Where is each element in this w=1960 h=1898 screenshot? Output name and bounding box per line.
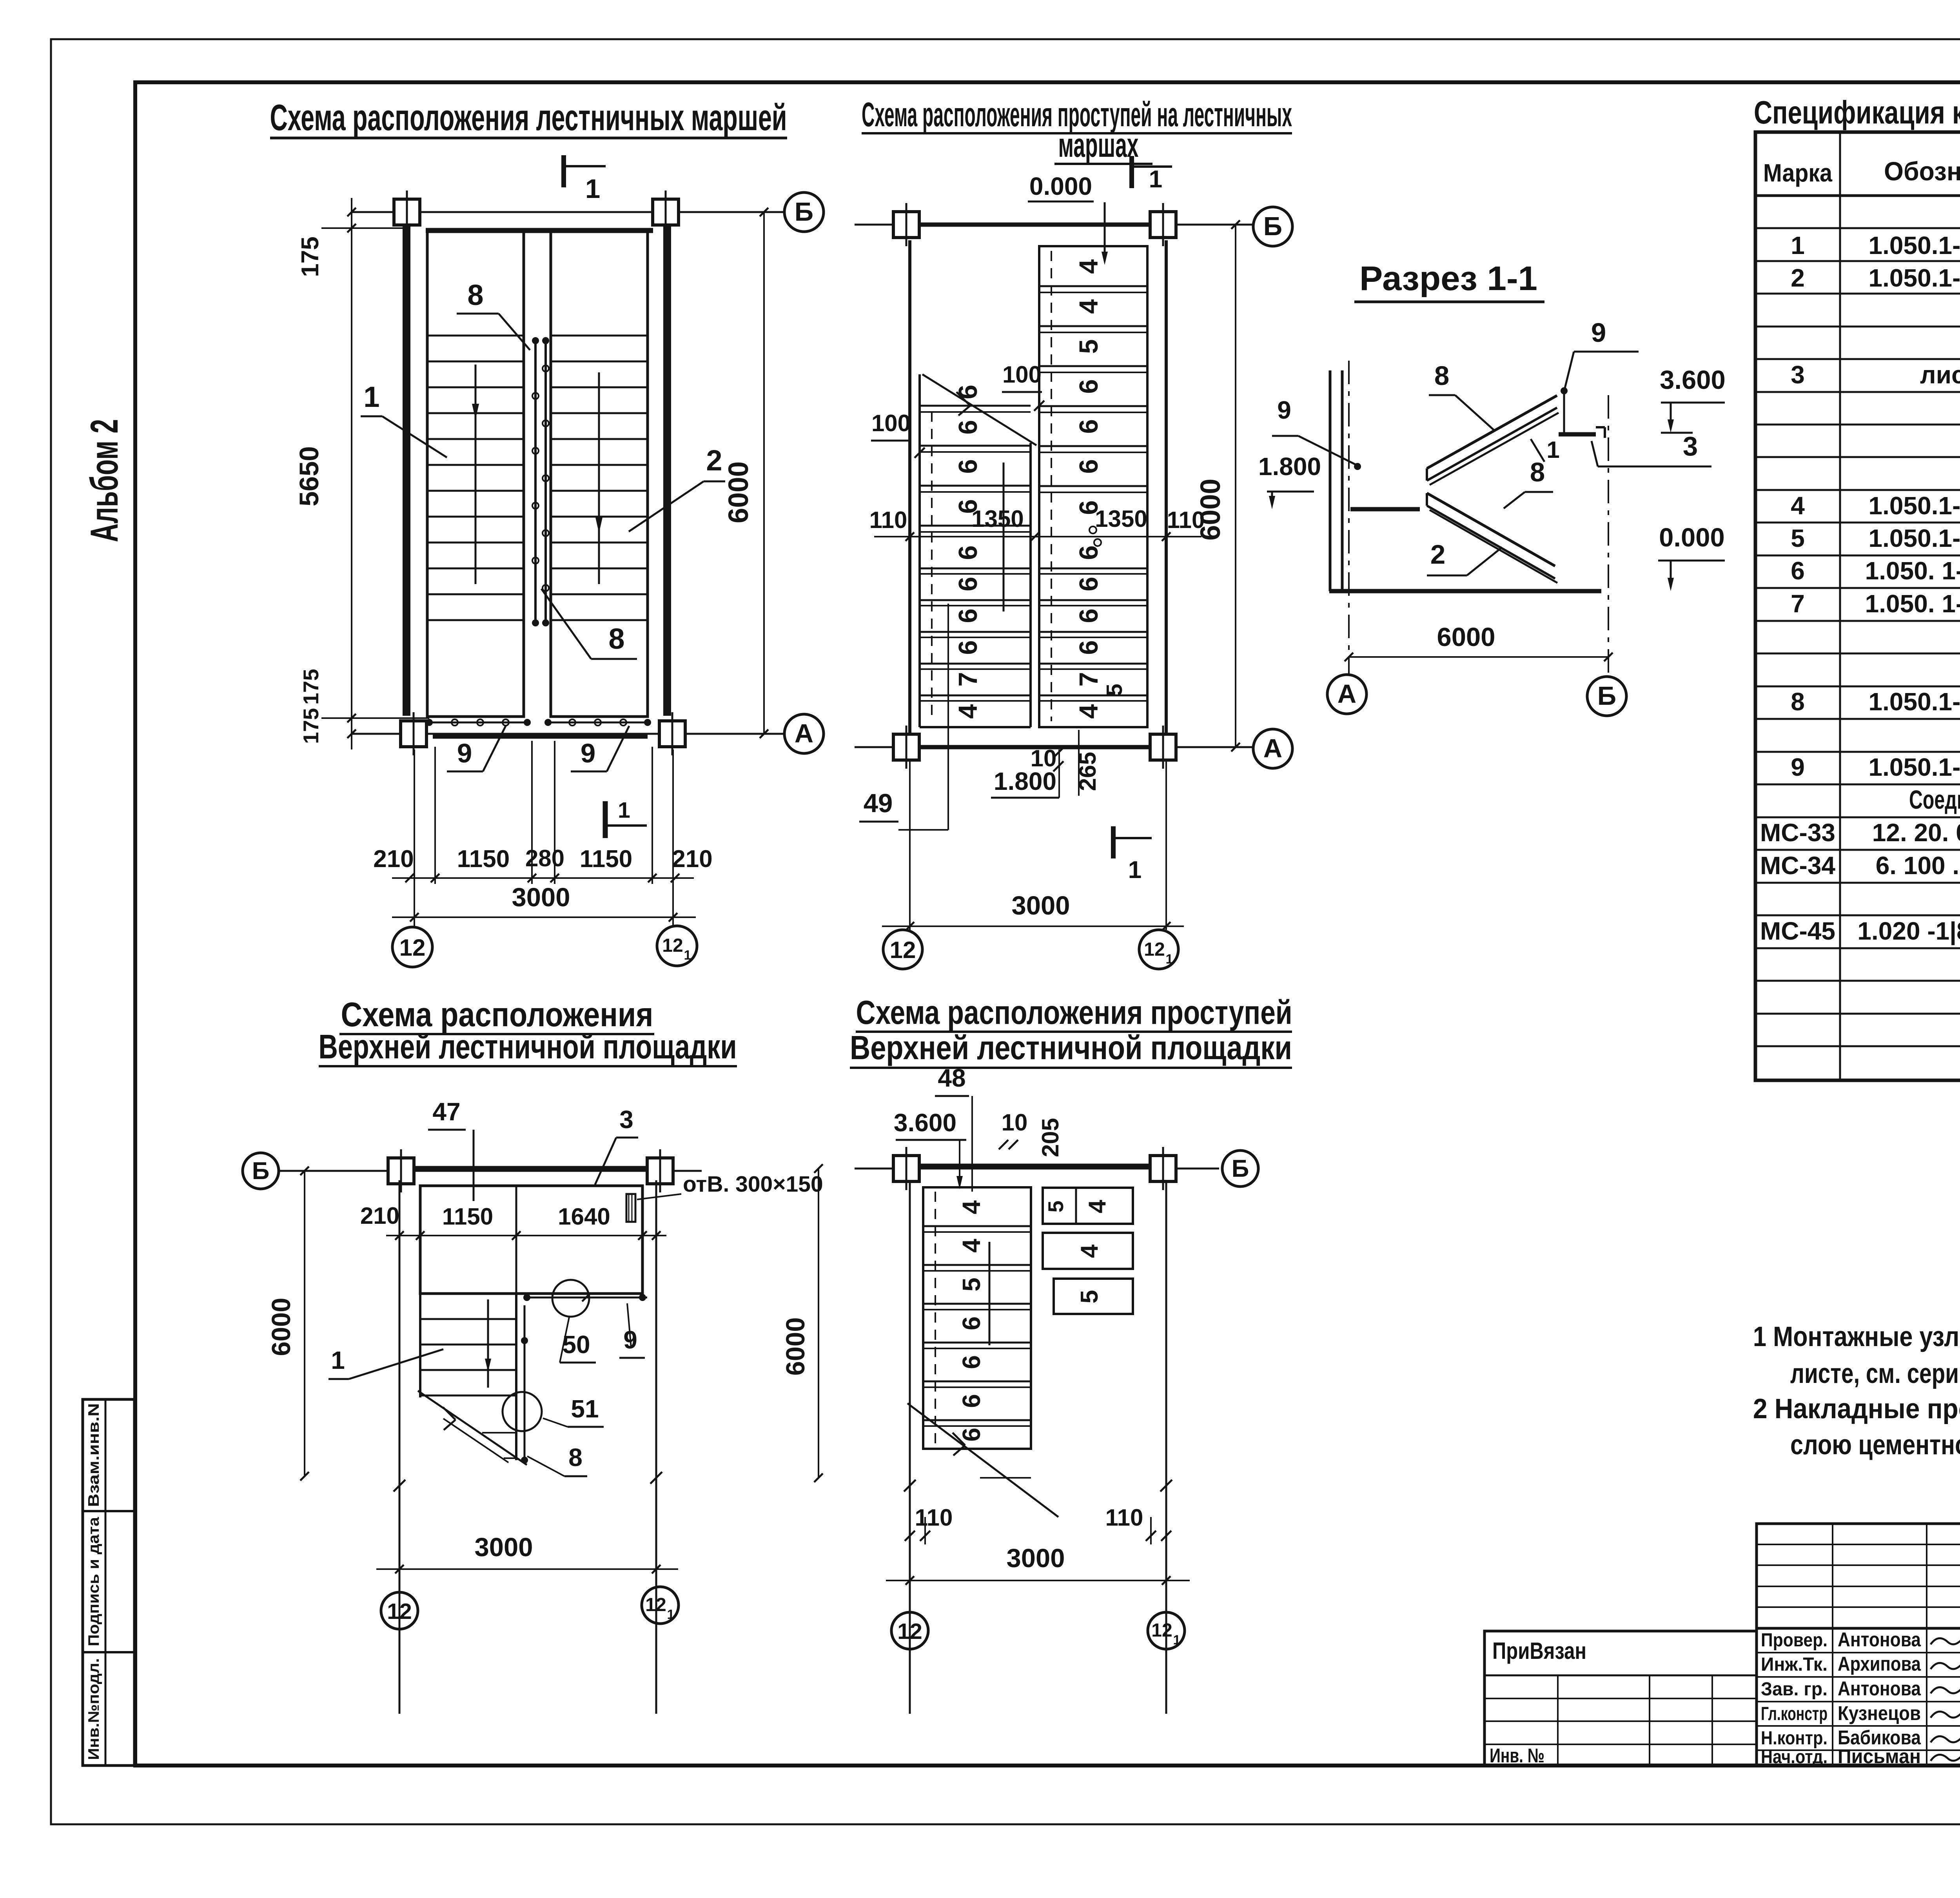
grid bubble 12-1 (drawing 4) [1148,1612,1185,1649]
dimension 6000 (section) [1349,656,1608,658]
bottom beam [433,734,648,739]
stair flight 2 outline [551,230,648,717]
extension lines down to bottom bubbles [414,749,415,927]
svg-text:8: 8 [467,279,483,311]
beam bottom (drawing 2) [920,745,1150,749]
svg-text:Инв. №: Инв. № [1490,1744,1544,1767]
grid bubble 12 (drawing 1) [392,927,432,967]
grid bubble 12-1 (drawing 2) [1139,930,1178,969]
section mark 1 (top) [561,155,566,187]
column top-right [653,199,679,225]
svg-text:12: 12 [890,937,916,963]
svg-text:9: 9 [581,738,595,768]
svg-text:51: 51 [571,1395,599,1423]
landing railing row left (pos 9) [429,722,527,724]
table row lines [1755,227,1960,229]
svg-text:6: 6 [1074,459,1103,474]
svg-text:Б: Б [795,197,813,227]
svg-text:отВ. 300×150: отВ. 300×150 [683,1172,823,1197]
svg-text:6: 6 [953,577,983,591]
partial treads below break [482,1432,516,1433]
svg-text:110: 110 [869,507,907,533]
svg-text:280: 280 [525,845,564,871]
flight treads (drawing 3) [420,1318,516,1320]
svg-text:Схема расположения проступей: Схема расположения проступей [856,994,1292,1031]
svg-text:А: А [795,719,813,748]
left tread column (drawing 4) [923,1187,1031,1449]
svg-text:6: 6 [1074,608,1103,623]
walk line (drawing 3) [487,1299,489,1388]
svg-text:2: 2 [706,444,722,477]
grid bubble A (drawing 1) [784,714,824,753]
landing railing (drawing 3) [524,1297,647,1299]
landing 1.800 (section) [1350,507,1420,512]
svg-text:6: 6 [953,608,983,623]
dimension 3000 (drawing 3) [376,1568,678,1570]
svg-text:9: 9 [457,738,472,768]
svg-text:9: 9 [1277,396,1291,424]
svg-text:6: 6 [1791,557,1805,585]
svg-text:5650: 5650 [294,446,324,506]
right wall (solid) [663,225,671,716]
svg-text:3000: 3000 [512,883,570,912]
svg-text:1: 1 [1128,856,1142,884]
landing railing row right (pos 9) [548,722,648,724]
upper flight (section) [1427,396,1557,468]
svg-text:4: 4 [1076,1244,1103,1258]
axis line B (section, dash-dot) [1608,395,1609,675]
svg-text:6: 6 [953,420,983,434]
column bottom-right [659,721,685,747]
grid axis B (drawing 4) [855,1168,1219,1170]
grid bubble 12-1 (drawing 1) [657,926,697,966]
svg-text:3: 3 [1683,431,1698,461]
svg-text:12: 12 [897,1619,922,1644]
grid bubble 12-1 (drawing 3) [642,1587,679,1624]
svg-text:0.000: 0.000 [1659,523,1725,552]
grid bubble B (drawing 1) [784,192,824,232]
svg-text:1.020 -1|83 7.1 100: 1.020 -1|83 7.1 100 [1857,917,1960,945]
table header row [1755,194,1960,197]
left wall (section) [1329,370,1332,591]
svg-text:6: 6 [957,1316,985,1330]
walls (drawing 3) [399,1180,401,1714]
svg-text:Соединительные элементы лест: Соединительные элементы лестницы [1909,785,1960,815]
svg-text:5: 5 [1076,1290,1103,1303]
svg-text:1: 1 [1791,231,1805,259]
svg-text:МС-34: МС-34 [1760,851,1835,880]
svg-text:Альбом 2: Альбом 2 [82,419,126,542]
svg-text:1.050.1-2 Вып. 1: 1.050.1-2 Вып. 1 [1869,492,1960,520]
svg-text:1.050. 1-2 Вып. 1: 1.050. 1-2 Вып. 1 [1865,590,1960,618]
svg-text:ПриВязан: ПриВязан [1492,1638,1586,1664]
break line (drawing 4) [907,1403,1058,1517]
svg-text:Спецификация к схемам располож: Спецификация к схемам расположения элеме… [1754,94,1960,131]
svg-text:Инж.Тк.: Инж.Тк. [1761,1654,1828,1675]
stamp: upper revision grid [1757,1524,1960,1628]
svg-text:Б: Б [1232,1155,1249,1182]
svg-text:1: 1 [363,381,379,413]
table frame [1755,132,1960,1080]
axis line A (section, dash-dot) [1348,361,1350,675]
grid bubble B (drawing 2) [1253,207,1292,246]
svg-text:4: 4 [957,1239,985,1253]
svg-text:10: 10 [1002,1109,1028,1136]
dimension 3000 (drawing 1) [392,916,696,918]
svg-text:6: 6 [1074,640,1103,655]
svg-text:6: 6 [957,1394,985,1408]
column bottom-left [401,721,426,747]
svg-text:1.050.1-2 Вып. 2: 1.050.1-2 Вып. 2 [1869,753,1960,781]
svg-text:Провер.: Провер. [1761,1630,1828,1651]
svg-text:210: 210 [672,846,712,873]
svg-text:12: 12 [399,934,426,961]
svg-text:1350: 1350 [971,506,1024,532]
column top-left [394,199,420,225]
svg-text:3.600: 3.600 [894,1109,956,1137]
section mark 1 (top, drawing 2) [1129,156,1134,188]
grid bubble B (section) [1587,677,1626,716]
svg-text:12: 12 [645,1595,666,1615]
svg-text:100: 100 [871,410,911,436]
extension lines to bottom bubbles (drawing 2) [909,760,911,930]
left wall (solid) [403,225,410,716]
stamp: signatures (squiggles) [1931,1633,1960,1644]
svg-text:205: 205 [1037,1118,1063,1157]
grid bubble B (drawing 4) [1222,1150,1258,1187]
svg-text:6: 6 [953,459,983,474]
svg-text:8: 8 [1434,361,1449,391]
svg-text:1: 1 [1546,437,1559,463]
flight railing (drawing 3) [524,1305,526,1460]
grid bubble 12 (drawing 4) [891,1612,928,1649]
svg-text:47: 47 [432,1098,460,1126]
svg-text:Схема расположения лестничных: Схема расположения лестничных маршей [270,97,787,138]
walk line (drawing 2) [1003,463,1005,611]
table column lines [1839,132,1841,1080]
svg-text:МС-33: МС-33 [1760,818,1835,847]
left dimension 6000 (drawing 4) [818,1169,819,1478]
svg-text:4: 4 [1074,299,1103,314]
svg-text:6: 6 [1074,379,1103,394]
svg-text:3000: 3000 [1006,1544,1065,1573]
svg-text:3000: 3000 [1011,891,1070,920]
beam (drawing 4) [919,1164,1150,1168]
svg-text:1.800: 1.800 [994,767,1056,795]
svg-text:Обозначение: Обозначение [1884,157,1960,186]
svg-text:8: 8 [568,1443,583,1472]
svg-text:6: 6 [957,1355,985,1369]
svg-text:1: 1 [1149,166,1162,193]
svg-text:6: 6 [1074,577,1103,591]
top beam [426,228,653,233]
svg-text:Верхней лестничной площадки: Верхней лестничной площадки [850,1029,1292,1067]
break line (drawing 3) [418,1391,527,1465]
treads flight 1 [427,335,524,337]
section mark 1 (bottom, drawing 2) [1111,826,1116,858]
svg-text:100: 100 [1002,361,1042,388]
svg-text:Антонова: Антонова [1838,1677,1921,1700]
svg-text:12: 12 [1151,1620,1172,1641]
walk line flight 2 [598,372,600,584]
svg-text:1: 1 [1166,952,1173,967]
walls (drawing 4) [909,1180,911,1714]
svg-text:50: 50 [562,1330,590,1359]
svg-text:110: 110 [915,1504,953,1531]
grid bubble B (drawing 3) [243,1153,279,1189]
svg-text:МС-45: МС-45 [1760,917,1835,945]
svg-text:8: 8 [608,622,624,655]
right tread blocks (drawing 4) [1043,1188,1133,1224]
svg-text:4: 4 [1074,704,1103,719]
svg-text:1350: 1350 [1095,506,1147,532]
stamp: signature rows [1757,1628,1960,1766]
svg-text:12. 20. 060 . 100: 12. 20. 060 . 100 [1872,818,1960,847]
svg-text:4: 4 [1791,492,1805,520]
svg-text:6: 6 [953,385,983,399]
svg-text:5: 5 [1791,524,1805,552]
svg-text:1: 1 [585,174,600,204]
svg-text:листе, см. серию 1.020-1|83: листе, см. серию 1.020-1|83 Вып. 6-1. [1790,1358,1960,1389]
callout circle 51 [503,1392,542,1431]
svg-text:175: 175 [299,669,323,705]
section mark 1 (bottom, drawing 1) [603,801,608,838]
svg-text:Разрез 1-1: Разрез 1-1 [1359,259,1537,298]
svg-text:4: 4 [1084,1199,1111,1213]
beam top (drawing 2) [920,223,1150,227]
svg-text:9: 9 [1591,318,1606,348]
svg-text:Архипова: Архипова [1838,1653,1921,1675]
grid bubble A (section) [1327,675,1367,714]
grid axis B (drawing 3) [278,1170,702,1172]
svg-text:3.600: 3.600 [1660,365,1726,395]
svg-text:8: 8 [1530,457,1545,487]
tread flight left (drawing 2) [918,374,921,727]
svg-text:Письман: Письман [1838,1745,1921,1767]
lower flight (section) [1427,493,1555,566]
walk line (drawing 4) [989,1242,991,1345]
beam (drawing 3) [414,1166,647,1170]
svg-text:6: 6 [957,1428,985,1442]
svg-text:1: 1 [331,1346,345,1374]
svg-text:7: 7 [953,672,983,686]
landing 3.600 stub (section) [1559,432,1596,437]
svg-text:1150: 1150 [442,1203,493,1230]
walk line flight 1 [475,365,477,584]
mid dimension 110/1350/1350/110 (drawing 2) [874,536,1201,537]
svg-text:12: 12 [662,935,683,956]
svg-text:1.050.1-2 Вып. 1: 1.050.1-2 Вып. 1 [1869,231,1960,259]
svg-text:1: 1 [684,948,691,963]
grid axis A (drawing 1) [352,733,784,735]
svg-text:5: 5 [957,1277,985,1292]
ground line 0.000 (section) [1329,589,1601,593]
dimension 3000 (drawing 4) [886,1580,1190,1581]
svg-text:12: 12 [1144,939,1165,960]
svg-text:1.050.1-2 Вып. 2: 1.050.1-2 Вып. 2 [1869,688,1960,716]
svg-text:Кузнецов: Кузнецов [1838,1702,1921,1724]
svg-text:110: 110 [1105,1504,1143,1531]
svg-text:2 Накладные проступи уклады: 2 Накладные проступи уклады ваются по [1753,1394,1960,1424]
svg-text:1.800: 1.800 [1258,452,1321,481]
svg-text:9: 9 [1791,753,1805,781]
svg-text:8: 8 [1791,688,1805,716]
svg-text:48: 48 [938,1064,965,1092]
svg-text:Н.контр.: Н.контр. [1761,1728,1828,1749]
svg-text:Марка: Марка [1763,159,1832,187]
svg-text:3: 3 [1791,361,1805,389]
svg-text:6000: 6000 [1195,479,1226,541]
svg-text:6. 100 . 060 . 65: 6. 100 . 060 . 65 [1876,851,1960,880]
svg-text:4: 4 [957,1200,985,1214]
svg-text:175: 175 [297,236,324,277]
svg-text:1150: 1150 [457,846,510,873]
svg-text:Б: Б [252,1158,270,1185]
svg-text:5: 5 [1074,339,1103,354]
partial treads below break (drawing 4) [923,1448,1031,1450]
right dimension 6000 (drawing 2) [1235,225,1236,747]
svg-text:6: 6 [953,545,983,560]
svg-text:7: 7 [1074,672,1103,686]
svg-text:1: 1 [618,798,630,823]
svg-text:А: А [1338,679,1356,709]
svg-text:лист 30: лист 30 [1920,361,1960,389]
stair flight 1 outline [427,230,524,717]
svg-text:210: 210 [373,846,414,873]
svg-text:Инв.№подл.: Инв.№подл. [85,1658,102,1760]
svg-text:4: 4 [1074,259,1103,274]
svg-text:7: 7 [1791,590,1805,618]
svg-text:Взам.инв.N: Взам.инв.N [85,1403,102,1507]
columns (drawing 2) [893,212,919,238]
svg-text:1150: 1150 [580,846,633,873]
svg-text:Зав. гр.: Зав. гр. [1761,1679,1828,1700]
walls (drawing 2) [908,240,911,736]
left stamp (privyazan) [1485,1631,1757,1766]
svg-text:49: 49 [864,789,893,818]
svg-text:маршах: маршах [1058,126,1139,164]
svg-text:А: А [1263,734,1282,763]
dimension 3000 (drawing 2) [882,925,1184,927]
grid axis B (drawing 2) [855,224,1253,226]
svg-text:6: 6 [1074,545,1103,560]
svg-text:1.050.1-2 Вып. 1: 1.050.1-2 Вып. 1 [1869,524,1960,552]
left attribute boxes [83,1399,134,1766]
grid bubble 12 (drawing 2) [883,930,922,969]
svg-text:6000: 6000 [723,461,754,523]
callout circle 50 [552,1280,589,1317]
svg-text:6000: 6000 [781,1317,810,1375]
svg-text:4: 4 [953,704,983,719]
svg-text:5: 5 [1044,1201,1068,1213]
svg-text:слою цементно-песчаного раств: слою цементно-песчаного раствора М100 [1790,1430,1960,1461]
0.000 drop arrow [1104,202,1106,258]
svg-text:Б: Б [1597,681,1616,711]
svg-text:1: 1 [1173,1633,1181,1648]
svg-text:6: 6 [1074,419,1103,434]
ventilation hole [626,1194,635,1222]
dimension chain 210/1150/280/1150/210 [392,877,694,879]
tread flight right (drawing 2) [1039,246,1147,727]
grid bubble 12 (drawing 3) [381,1592,418,1629]
grid axis A (drawing 2) [855,746,1253,748]
svg-text:1: 1 [667,1607,675,1622]
svg-text:Нач.отд.: Нач.отд. [1761,1747,1828,1767]
svg-text:1 Монтажные узлы, замаркиро: 1 Монтажные узлы, замаркированные на дан… [1753,1321,1960,1352]
svg-text:Подпись и дата: Подпись и дата [85,1517,102,1646]
svg-text:1640: 1640 [558,1203,610,1230]
stair railing bars (pos 8) [534,341,537,623]
svg-text:6000: 6000 [1437,622,1495,652]
svg-text:0.000: 0.000 [1029,172,1092,200]
right dimension line 6000 [763,212,765,734]
treads flight 2 [551,335,648,337]
svg-text:210: 210 [360,1203,399,1229]
left dimension 6000 (drawing 3) [304,1171,305,1476]
svg-text:5: 5 [1102,684,1127,696]
columns (drawing 3) [388,1158,414,1184]
svg-text:6: 6 [953,640,983,655]
svg-text:Верхней лестничной площадки: Верхней лестничной площадки [319,1028,737,1066]
svg-text:Антонова: Антонова [1838,1628,1921,1651]
svg-text:3: 3 [619,1105,633,1134]
svg-text:Б: Б [1263,212,1282,241]
landing plate (drawing 3) [420,1186,642,1294]
svg-text:12: 12 [387,1599,412,1624]
railing post and dot (pos 9, section) [1561,387,1568,394]
svg-text:6000: 6000 [267,1297,296,1356]
svg-text:2: 2 [1430,539,1445,570]
grid axis B (drawing 1) [352,211,784,213]
grid bubble A (drawing 2) [1253,729,1292,768]
dimension 210/1150/1640 (drawing 3) [386,1235,666,1236]
svg-text:175: 175 [299,708,323,744]
svg-text:1.050. 1-2 Вып. 1: 1.050. 1-2 Вып. 1 [1865,557,1960,585]
columns (drawing 4) [893,1156,919,1181]
svg-text:3000: 3000 [474,1533,533,1562]
svg-text:Гл.констр: Гл.констр [1761,1704,1828,1724]
svg-text:1.050.1-2 Вып. 1: 1.050.1-2 Вып. 1 [1869,264,1960,292]
left dimension line (175 / 5650 / 175) [351,198,352,749]
svg-text:2: 2 [1791,264,1805,292]
